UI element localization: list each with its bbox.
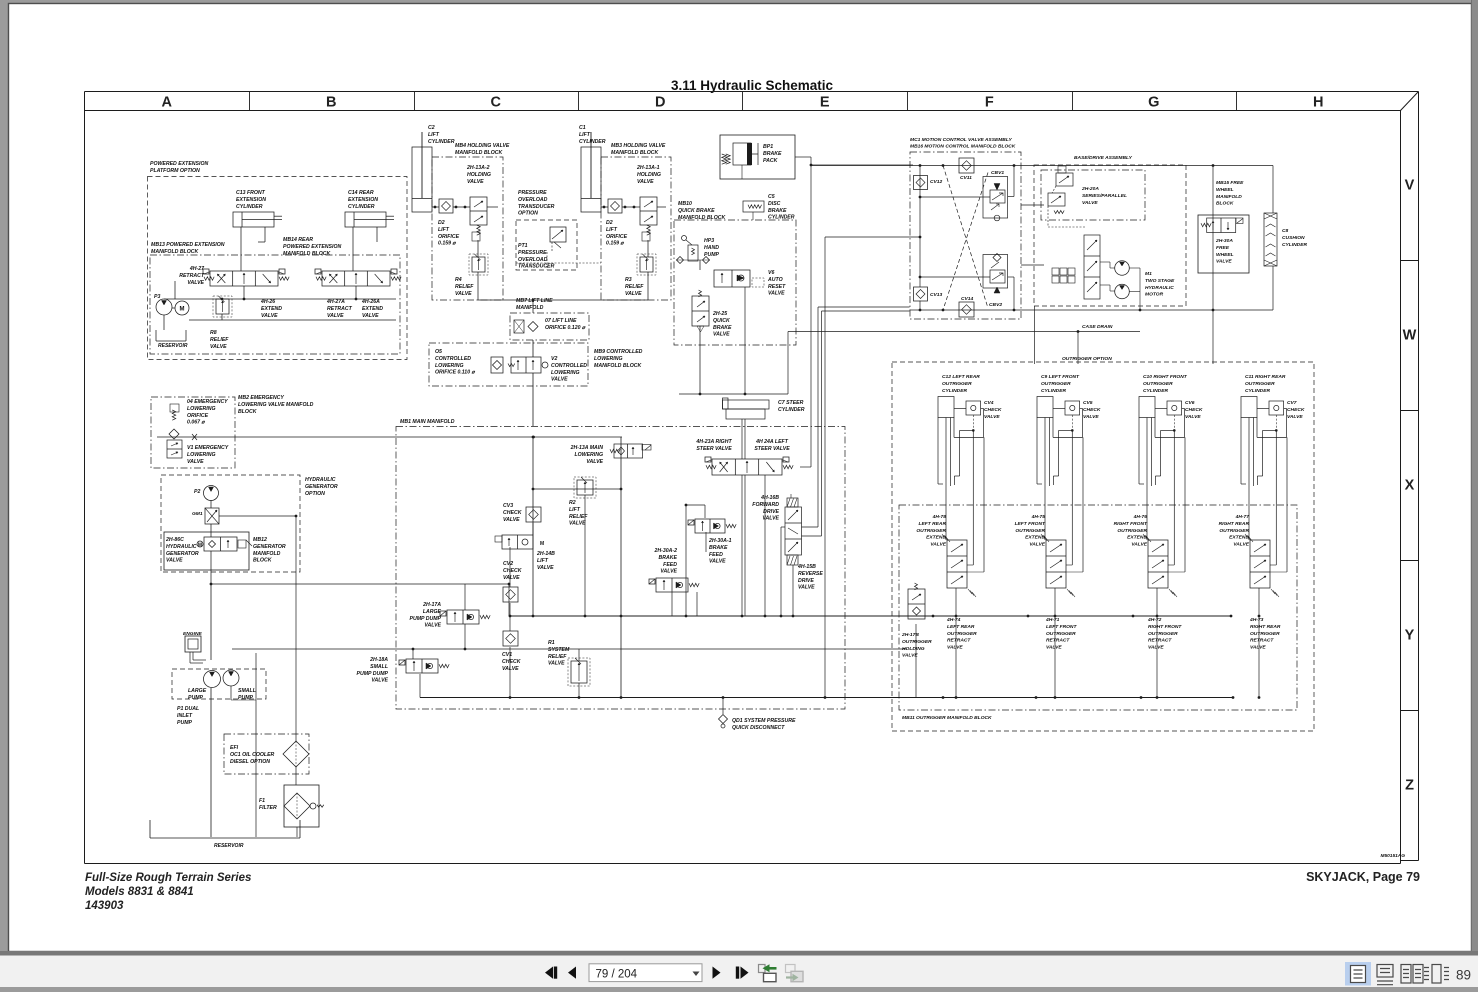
svg-text:MANIFOLD BLOCK: MANIFOLD BLOCK bbox=[455, 150, 504, 156]
svg-text:RELIEF: RELIEF bbox=[210, 337, 229, 343]
svg-text:MANIFOLD BLOCK: MANIFOLD BLOCK bbox=[594, 363, 643, 369]
svg-text:CYLINDER: CYLINDER bbox=[579, 139, 606, 145]
svg-text:EXTEND: EXTEND bbox=[1025, 535, 1045, 541]
svg-text:VALVE: VALVE bbox=[1250, 645, 1266, 651]
svg-text:OVERLOAD: OVERLOAD bbox=[518, 197, 548, 203]
svg-text:4H-72: 4H-72 bbox=[1147, 617, 1162, 623]
svg-text:4H-71: 4H-71 bbox=[1045, 617, 1060, 623]
svg-text:SKYJACK, Page 79: SKYJACK, Page 79 bbox=[1306, 870, 1420, 884]
svg-text:LEFT FRONT: LEFT FRONT bbox=[1046, 624, 1077, 630]
svg-text:FREE: FREE bbox=[1216, 245, 1230, 251]
svg-text:CBV2: CBV2 bbox=[989, 302, 1002, 308]
svg-text:V1 EMERGENCY: V1 EMERGENCY bbox=[187, 445, 229, 451]
svg-text:MB13 POWERED EXTENSION: MB13 POWERED EXTENSION bbox=[151, 242, 225, 248]
svg-text:VALVE: VALVE bbox=[586, 459, 603, 465]
svg-text:O5: O5 bbox=[435, 349, 442, 355]
svg-text:CHECK: CHECK bbox=[1083, 407, 1101, 413]
svg-text:LIFT: LIFT bbox=[606, 227, 618, 233]
svg-text:MANIFOLD BLOCK: MANIFOLD BLOCK bbox=[611, 150, 660, 156]
svg-text:OUTRIGGER: OUTRIGGER bbox=[942, 381, 972, 387]
svg-text:H: H bbox=[1313, 95, 1323, 111]
svg-text:VALVE: VALVE bbox=[713, 332, 730, 338]
svg-text:MB9 CONTROLLED: MB9 CONTROLLED bbox=[594, 349, 643, 355]
svg-text:LOWERING: LOWERING bbox=[594, 356, 623, 362]
svg-text:BLOCK: BLOCK bbox=[253, 558, 273, 564]
svg-text:2H-17B: 2H-17B bbox=[901, 632, 919, 638]
svg-text:143903: 143903 bbox=[85, 900, 124, 912]
svg-text:EXTEND: EXTEND bbox=[1127, 535, 1147, 541]
svg-text:RELIEF: RELIEF bbox=[455, 284, 474, 290]
svg-text:3.11 Hydraulic Schematic: 3.11 Hydraulic Schematic bbox=[671, 78, 834, 93]
svg-text:DRIVE: DRIVE bbox=[798, 578, 814, 584]
svg-text:GENERATOR: GENERATOR bbox=[253, 544, 286, 550]
svg-text:LOWERING: LOWERING bbox=[187, 452, 216, 458]
svg-text:LOWERING VALVE MANIFOLD: LOWERING VALVE MANIFOLD bbox=[238, 402, 314, 408]
svg-text:MC1 MOTION CONTROL VALVE ASSEM: MC1 MOTION CONTROL VALVE ASSEMBLY bbox=[910, 137, 1012, 143]
svg-text:Z: Z bbox=[1405, 778, 1414, 794]
svg-text:VALVE: VALVE bbox=[424, 623, 441, 629]
svg-text:VALVE: VALVE bbox=[768, 291, 785, 297]
svg-text:MB4 HOLDING VALVE: MB4 HOLDING VALVE bbox=[455, 143, 510, 149]
svg-text:HYDRAULIC: HYDRAULIC bbox=[305, 477, 336, 483]
svg-text:MANIFOLD BLOCK: MANIFOLD BLOCK bbox=[151, 249, 200, 255]
svg-text:2H-13A-2: 2H-13A-2 bbox=[466, 165, 490, 171]
svg-text:4H-15B: 4H-15B bbox=[797, 564, 816, 570]
svg-text:VALVE: VALVE bbox=[1046, 645, 1062, 651]
svg-text:VALVE: VALVE bbox=[1148, 645, 1164, 651]
svg-text:VALVE: VALVE bbox=[327, 313, 344, 319]
svg-text:HOLDING: HOLDING bbox=[637, 172, 661, 178]
svg-text:VALVE: VALVE bbox=[362, 313, 379, 319]
svg-text:HYDRAULIC: HYDRAULIC bbox=[166, 544, 197, 550]
svg-text:VALVE: VALVE bbox=[503, 517, 520, 523]
svg-text:DISC: DISC bbox=[768, 201, 781, 207]
svg-text:VALVE: VALVE bbox=[166, 558, 183, 564]
svg-text:VALVE: VALVE bbox=[467, 179, 484, 185]
svg-text:OUTRIGGER: OUTRIGGER bbox=[902, 639, 932, 645]
svg-text:SERIES/PARALLEL: SERIES/PARALLEL bbox=[1082, 193, 1127, 199]
svg-text:VALVE: VALVE bbox=[984, 414, 1000, 420]
svg-text:DIESEL OPTION: DIESEL OPTION bbox=[230, 759, 270, 765]
svg-text:VALVE: VALVE bbox=[455, 291, 472, 297]
svg-text:BLOCK: BLOCK bbox=[238, 409, 258, 415]
svg-text:A: A bbox=[162, 95, 173, 111]
svg-text:VALVE: VALVE bbox=[187, 280, 204, 286]
svg-text:P2: P2 bbox=[194, 489, 200, 495]
svg-text:EXTEND: EXTEND bbox=[362, 306, 383, 312]
svg-text:4H-74: 4H-74 bbox=[946, 617, 961, 623]
svg-text:D2: D2 bbox=[606, 220, 613, 226]
svg-text:HYDRAULIC: HYDRAULIC bbox=[1145, 285, 1174, 291]
svg-text:2H-20A: 2H-20A bbox=[1081, 186, 1099, 192]
svg-text:LIFT: LIFT bbox=[428, 132, 440, 138]
svg-text:CHECK: CHECK bbox=[502, 659, 522, 665]
svg-text:EXTEND: EXTEND bbox=[926, 535, 946, 541]
svg-text:STEER VALVE: STEER VALVE bbox=[696, 446, 732, 452]
svg-text:OUTRIGGER: OUTRIGGER bbox=[947, 631, 977, 637]
svg-text:PUMP: PUMP bbox=[177, 720, 193, 726]
svg-text:BP1: BP1 bbox=[763, 144, 773, 150]
svg-text:PLATFORM OPTION: PLATFORM OPTION bbox=[150, 168, 200, 174]
svg-text:LIFT: LIFT bbox=[537, 558, 549, 564]
svg-text:ORIFICE 0.110 ⌀: ORIFICE 0.110 ⌀ bbox=[435, 370, 476, 376]
svg-text:4H 24A LEFT: 4H 24A LEFT bbox=[755, 439, 789, 445]
svg-text:ORIFICE: ORIFICE bbox=[606, 234, 628, 240]
svg-text:VALVE: VALVE bbox=[187, 459, 204, 465]
svg-text:CV1: CV1 bbox=[502, 652, 512, 658]
svg-text:MB1 MAIN MANIFOLD: MB1 MAIN MANIFOLD bbox=[400, 419, 455, 425]
svg-text:VALVE: VALVE bbox=[798, 585, 815, 591]
svg-text:M: M bbox=[540, 541, 544, 547]
svg-text:CV13: CV13 bbox=[930, 292, 943, 298]
svg-text:C2: C2 bbox=[428, 125, 435, 131]
svg-text:E: E bbox=[820, 95, 830, 111]
svg-text:PUMP: PUMP bbox=[188, 695, 204, 701]
svg-text:R2: R2 bbox=[569, 500, 576, 506]
svg-text:BRAKE: BRAKE bbox=[659, 555, 678, 561]
svg-text:4H-75: 4H-75 bbox=[1031, 514, 1046, 520]
svg-text:2H-30A-2: 2H-30A-2 bbox=[654, 548, 678, 554]
svg-text:VALVE: VALVE bbox=[548, 661, 565, 667]
svg-text:CUSHION: CUSHION bbox=[1282, 235, 1305, 241]
svg-text:QUICK DISCONNECT: QUICK DISCONNECT bbox=[732, 725, 785, 731]
svg-text:OUTRIGGER: OUTRIGGER bbox=[1041, 381, 1071, 387]
svg-text:R4: R4 bbox=[455, 277, 462, 283]
svg-text:RELIEF: RELIEF bbox=[548, 654, 567, 660]
svg-text:LIFT: LIFT bbox=[569, 507, 581, 513]
svg-text:ORIFICE: ORIFICE bbox=[438, 234, 460, 240]
svg-text:INLET: INLET bbox=[177, 713, 193, 719]
svg-text:VALVE: VALVE bbox=[1131, 542, 1147, 548]
svg-text:RIGHT REAR: RIGHT REAR bbox=[1219, 521, 1250, 527]
svg-text:CYLINDER: CYLINDER bbox=[428, 139, 455, 145]
svg-text:OUTRIGGER: OUTRIGGER bbox=[1148, 631, 1178, 637]
svg-text:V2: V2 bbox=[551, 356, 557, 362]
svg-text:EXTENSION: EXTENSION bbox=[348, 197, 378, 203]
svg-text:CHECK: CHECK bbox=[1287, 407, 1305, 413]
svg-text:C: C bbox=[491, 95, 502, 111]
svg-text:VALVE: VALVE bbox=[1185, 414, 1201, 420]
svg-text:VALVE: VALVE bbox=[930, 542, 946, 548]
svg-text:2H-13A-1: 2H-13A-1 bbox=[636, 165, 660, 171]
svg-text:BRAKE: BRAKE bbox=[713, 325, 732, 331]
svg-text:LEFT REAR: LEFT REAR bbox=[947, 624, 975, 630]
svg-text:OUTRIGGER: OUTRIGGER bbox=[1250, 631, 1280, 637]
svg-text:LOWERING: LOWERING bbox=[435, 363, 464, 369]
svg-text:DRIVE: DRIVE bbox=[763, 509, 779, 515]
svg-text:4H-23A RIGHT: 4H-23A RIGHT bbox=[695, 439, 732, 445]
svg-text:G: G bbox=[1148, 95, 1159, 111]
svg-text:C12 LEFT REAR: C12 LEFT REAR bbox=[942, 374, 980, 380]
svg-text:2H-25: 2H-25 bbox=[712, 311, 727, 317]
svg-text:VALVE: VALVE bbox=[371, 678, 388, 684]
svg-text:LOWERING: LOWERING bbox=[187, 406, 216, 412]
svg-text:V: V bbox=[1405, 178, 1415, 194]
svg-text:TRANSDUCER: TRANSDUCER bbox=[518, 264, 555, 270]
svg-text:SMALL: SMALL bbox=[238, 688, 256, 694]
svg-text:OC1 OIL COOLER: OC1 OIL COOLER bbox=[230, 752, 275, 758]
svg-text:CYLINDER: CYLINDER bbox=[778, 407, 805, 413]
svg-text:GENERATOR: GENERATOR bbox=[305, 484, 338, 490]
svg-text:TWO STAGE: TWO STAGE bbox=[1145, 278, 1175, 284]
svg-text:C5: C5 bbox=[768, 194, 775, 200]
svg-text:CV4: CV4 bbox=[984, 400, 994, 406]
svg-text:4H-73: 4H-73 bbox=[1249, 617, 1264, 623]
svg-text:RETRACT: RETRACT bbox=[947, 638, 971, 644]
svg-text:MANIFOLD: MANIFOLD bbox=[253, 551, 281, 557]
svg-text:SMALL: SMALL bbox=[370, 664, 388, 670]
svg-text:VALVE: VALVE bbox=[1233, 542, 1249, 548]
svg-text:F1: F1 bbox=[259, 798, 265, 804]
svg-text:CYLINDER: CYLINDER bbox=[1282, 242, 1307, 248]
svg-text:B: B bbox=[326, 95, 336, 111]
svg-text:OUTRIGGER: OUTRIGGER bbox=[1015, 528, 1045, 534]
svg-text:LIFT: LIFT bbox=[579, 132, 591, 138]
svg-text:VALVE: VALVE bbox=[502, 666, 519, 672]
svg-text:2H-14B: 2H-14B bbox=[536, 551, 555, 557]
svg-text:C11 RIGHT REAR: C11 RIGHT REAR bbox=[1245, 374, 1286, 380]
svg-text:R3: R3 bbox=[625, 277, 632, 283]
svg-text:M: M bbox=[180, 307, 185, 313]
svg-text:P1 DUAL: P1 DUAL bbox=[177, 706, 199, 712]
svg-text:FEED: FEED bbox=[663, 562, 677, 568]
svg-text:GENERATOR: GENERATOR bbox=[166, 551, 199, 557]
svg-text:VALVE: VALVE bbox=[551, 377, 568, 383]
svg-text:OPTION: OPTION bbox=[518, 211, 538, 217]
svg-text:CV5: CV5 bbox=[1083, 400, 1093, 406]
svg-text:LARGE: LARGE bbox=[188, 688, 207, 694]
svg-text:4H-26: 4H-26 bbox=[260, 299, 275, 305]
svg-text:Full-Size Rough Terrain Series: Full-Size Rough Terrain Series bbox=[85, 872, 251, 884]
svg-text:2H-18A: 2H-18A bbox=[369, 657, 388, 663]
svg-text:REVERSE: REVERSE bbox=[798, 571, 823, 577]
svg-text:MOTOR: MOTOR bbox=[1145, 292, 1164, 298]
svg-text:RETRACT: RETRACT bbox=[1046, 638, 1070, 644]
svg-text:MB11 OUTRIGGER MANIFOLD BLOCK: MB11 OUTRIGGER MANIFOLD BLOCK bbox=[902, 715, 992, 721]
svg-text:VALVE: VALVE bbox=[709, 559, 726, 565]
svg-text:PT1: PT1 bbox=[518, 243, 528, 249]
svg-text:RIGHT REAR: RIGHT REAR bbox=[1250, 624, 1281, 630]
svg-text:CYLINDER: CYLINDER bbox=[1041, 388, 1066, 394]
svg-text:VALVE: VALVE bbox=[569, 521, 586, 527]
svg-text:CASE DRAIN: CASE DRAIN bbox=[1082, 324, 1113, 330]
svg-text:RELIEF: RELIEF bbox=[569, 514, 588, 520]
svg-text:07 LIFT LINE: 07 LIFT LINE bbox=[545, 318, 577, 324]
svg-text:OUTRIGGER: OUTRIGGER bbox=[1245, 381, 1275, 387]
svg-text:CHECK: CHECK bbox=[1185, 407, 1203, 413]
svg-text:LEFT REAR: LEFT REAR bbox=[919, 521, 947, 527]
svg-text:89: 89 bbox=[1456, 968, 1471, 983]
svg-text:PUMP DUMP: PUMP DUMP bbox=[409, 616, 441, 622]
svg-text:BRAKE: BRAKE bbox=[709, 545, 728, 551]
svg-text:VALVE: VALVE bbox=[503, 575, 520, 581]
svg-text:C8: C8 bbox=[1282, 228, 1289, 234]
svg-text:0.067 ⌀: 0.067 ⌀ bbox=[187, 420, 205, 426]
svg-text:BASE/DRIVE ASSEMBLY: BASE/DRIVE ASSEMBLY bbox=[1074, 155, 1133, 161]
svg-text:MB15 FREE: MB15 FREE bbox=[1216, 180, 1244, 186]
svg-text:D2: D2 bbox=[438, 220, 445, 226]
svg-text:Y: Y bbox=[1405, 628, 1415, 644]
svg-text:MB10: MB10 bbox=[678, 201, 692, 207]
svg-text:HAND: HAND bbox=[704, 245, 719, 251]
svg-text:OUTRIGGER OPTION: OUTRIGGER OPTION bbox=[1062, 356, 1112, 362]
svg-text:P3: P3 bbox=[154, 294, 160, 300]
svg-text:79 / 204: 79 / 204 bbox=[596, 969, 638, 981]
svg-text:0.159 ⌀: 0.159 ⌀ bbox=[606, 241, 624, 247]
svg-text:F: F bbox=[985, 95, 994, 111]
svg-text:CV7: CV7 bbox=[1287, 400, 1297, 406]
svg-text:LOWERING: LOWERING bbox=[551, 370, 580, 376]
svg-text:MANIFOLD: MANIFOLD bbox=[1216, 194, 1242, 200]
svg-text:M1: M1 bbox=[1145, 271, 1152, 277]
svg-text:EXTEND: EXTEND bbox=[261, 306, 282, 312]
svg-text:VALVE: VALVE bbox=[261, 313, 278, 319]
svg-text:RIGHT FRONT: RIGHT FRONT bbox=[1114, 521, 1148, 527]
svg-text:ORIFICE: ORIFICE bbox=[187, 413, 209, 419]
svg-text:BLOCK: BLOCK bbox=[1216, 201, 1234, 207]
svg-text:OUTRIGGER: OUTRIGGER bbox=[916, 528, 946, 534]
svg-text:ORIFICE 0.120 ⌀: ORIFICE 0.120 ⌀ bbox=[545, 325, 586, 331]
svg-text:MB7 LIFT LINE: MB7 LIFT LINE bbox=[516, 298, 553, 304]
svg-text:Models 8831 & 8841: Models 8831 & 8841 bbox=[85, 886, 194, 898]
svg-text:C10 RIGHT FRONT: C10 RIGHT FRONT bbox=[1143, 374, 1188, 380]
svg-text:X: X bbox=[1405, 478, 1415, 494]
svg-text:4H-78: 4H-78 bbox=[932, 514, 947, 520]
svg-text:POWERED EXTENSION: POWERED EXTENSION bbox=[283, 244, 341, 250]
svg-text:CYLINDER: CYLINDER bbox=[1245, 388, 1270, 394]
svg-text:RETRACT: RETRACT bbox=[179, 273, 205, 279]
svg-text:CYLINDER: CYLINDER bbox=[1143, 388, 1168, 394]
svg-text:OUTRIGGER: OUTRIGGER bbox=[1143, 381, 1173, 387]
svg-text:MB12: MB12 bbox=[253, 537, 267, 543]
svg-text:4H-16B: 4H-16B bbox=[760, 495, 779, 501]
svg-text:OUTRIGGER: OUTRIGGER bbox=[1117, 528, 1147, 534]
svg-text:CV14: CV14 bbox=[961, 296, 974, 302]
svg-text:MB3 HOLDING VALVE: MB3 HOLDING VALVE bbox=[611, 143, 666, 149]
svg-text:QUICK: QUICK bbox=[713, 318, 731, 324]
svg-text:CV2: CV2 bbox=[503, 561, 513, 567]
svg-text:MANIFOLD: MANIFOLD bbox=[516, 305, 544, 311]
svg-text:FEED: FEED bbox=[709, 552, 723, 558]
svg-text:2H-13A MAIN: 2H-13A MAIN bbox=[570, 445, 604, 451]
svg-text:OUTRIGGER: OUTRIGGER bbox=[1219, 528, 1249, 534]
svg-text:CHECK: CHECK bbox=[984, 407, 1002, 413]
svg-text:OUTRIGGER: OUTRIGGER bbox=[1046, 631, 1076, 637]
svg-text:MB16 MOTION CONTROL MANIFOLD B: MB16 MOTION CONTROL MANIFOLD BLOCK bbox=[910, 143, 1016, 149]
svg-text:4H-77: 4H-77 bbox=[1235, 514, 1250, 520]
svg-text:LOWERING: LOWERING bbox=[574, 452, 603, 458]
svg-text:4H-26A: 4H-26A bbox=[361, 299, 380, 305]
svg-text:RETRACT: RETRACT bbox=[327, 306, 353, 312]
svg-text:C14 REAR: C14 REAR bbox=[348, 190, 374, 196]
svg-text:OPTION: OPTION bbox=[305, 491, 325, 497]
svg-text:C13 FRONT: C13 FRONT bbox=[236, 190, 266, 196]
svg-text:QUICK BRAKE: QUICK BRAKE bbox=[678, 208, 715, 214]
svg-text:V6: V6 bbox=[768, 270, 774, 276]
svg-text:HP3: HP3 bbox=[704, 238, 714, 244]
svg-text:VALVE: VALVE bbox=[1216, 259, 1232, 265]
svg-text:FORWARD: FORWARD bbox=[752, 502, 779, 508]
svg-text:VALVE: VALVE bbox=[537, 565, 554, 571]
svg-text:TRANSDUCER: TRANSDUCER bbox=[518, 204, 555, 210]
svg-text:FILTER: FILTER bbox=[259, 805, 277, 811]
svg-text:BRAKE: BRAKE bbox=[763, 151, 782, 157]
svg-text:CYLINDER: CYLINDER bbox=[236, 204, 263, 210]
svg-text:MANIFOLD BLOCK: MANIFOLD BLOCK bbox=[283, 251, 332, 257]
svg-text:CV6: CV6 bbox=[1185, 400, 1195, 406]
svg-text:BRAKE: BRAKE bbox=[768, 208, 787, 214]
svg-text:M50151AG: M50151AG bbox=[1380, 853, 1405, 859]
svg-text:EFI: EFI bbox=[230, 745, 239, 751]
svg-text:RELIEF: RELIEF bbox=[625, 284, 644, 290]
svg-text:R8: R8 bbox=[210, 330, 217, 336]
svg-text:SYSTEM: SYSTEM bbox=[548, 647, 570, 653]
svg-text:PRESSURE: PRESSURE bbox=[518, 250, 547, 256]
svg-text:POWERED EXTENSION: POWERED EXTENSION bbox=[150, 161, 208, 167]
svg-text:RETRACT: RETRACT bbox=[1250, 638, 1274, 644]
svg-text:4H-76: 4H-76 bbox=[1133, 514, 1148, 520]
svg-text:2H-86C: 2H-86C bbox=[165, 537, 184, 543]
svg-text:CYLINDER: CYLINDER bbox=[942, 388, 967, 394]
svg-text:EXTENSION: EXTENSION bbox=[236, 197, 266, 203]
svg-text:RIGHT FRONT: RIGHT FRONT bbox=[1148, 624, 1182, 630]
svg-text:VALVE: VALVE bbox=[1082, 200, 1098, 206]
svg-text:CONTROLLED: CONTROLLED bbox=[435, 356, 471, 362]
svg-text:C7 STEER: C7 STEER bbox=[778, 400, 804, 406]
svg-text:CBV1: CBV1 bbox=[991, 170, 1004, 176]
svg-text:VALVE: VALVE bbox=[1029, 542, 1045, 548]
svg-text:R1: R1 bbox=[548, 640, 555, 646]
svg-text:LEFT FRONT: LEFT FRONT bbox=[1015, 521, 1046, 527]
svg-text:MB14 REAR: MB14 REAR bbox=[283, 237, 313, 243]
svg-text:VALVE: VALVE bbox=[947, 645, 963, 651]
svg-text:VALVE: VALVE bbox=[625, 291, 642, 297]
svg-text:C9 LEFT FRONT: C9 LEFT FRONT bbox=[1041, 374, 1080, 380]
svg-text:4H-27A: 4H-27A bbox=[326, 299, 345, 305]
svg-text:RESERVOIR: RESERVOIR bbox=[214, 843, 244, 849]
svg-text:VALVE: VALVE bbox=[637, 179, 654, 185]
svg-text:PRESSURE: PRESSURE bbox=[518, 190, 547, 196]
svg-text:CV3: CV3 bbox=[503, 503, 513, 509]
svg-text:HOLDING: HOLDING bbox=[902, 646, 925, 652]
svg-text:CYLINDER: CYLINDER bbox=[348, 204, 375, 210]
svg-text:W: W bbox=[1403, 328, 1417, 344]
svg-text:VALVE: VALVE bbox=[210, 344, 227, 350]
svg-text:PACK: PACK bbox=[763, 158, 779, 164]
svg-text:D: D bbox=[655, 95, 665, 111]
svg-text:VALVE: VALVE bbox=[660, 569, 677, 575]
svg-text:2H-30A-1: 2H-30A-1 bbox=[708, 538, 732, 544]
svg-text:CV12: CV12 bbox=[930, 179, 943, 185]
svg-text:AUTO: AUTO bbox=[767, 277, 783, 283]
svg-text:0.159 ⌀: 0.159 ⌀ bbox=[438, 241, 456, 247]
svg-text:QD1 SYSTEM PRESSURE: QD1 SYSTEM PRESSURE bbox=[732, 718, 796, 724]
svg-text:C1: C1 bbox=[579, 125, 586, 131]
svg-text:RETRACT: RETRACT bbox=[1148, 638, 1172, 644]
svg-text:2H-17A: 2H-17A bbox=[422, 602, 441, 608]
svg-text:RESET: RESET bbox=[768, 284, 786, 290]
svg-text:M: M bbox=[198, 543, 202, 549]
svg-text:MB2 EMERGENCY: MB2 EMERGENCY bbox=[238, 395, 284, 401]
svg-text:PUMP DUMP: PUMP DUMP bbox=[356, 671, 388, 677]
svg-text:04 EMERGENCY: 04 EMERGENCY bbox=[187, 399, 228, 405]
svg-text:2H-30A: 2H-30A bbox=[1215, 238, 1233, 244]
svg-text:CONTROLLED: CONTROLLED bbox=[551, 363, 587, 369]
svg-text:CV11: CV11 bbox=[960, 175, 972, 181]
svg-text:GM1: GM1 bbox=[192, 511, 203, 517]
svg-text:LARGE: LARGE bbox=[423, 609, 442, 615]
svg-text:WHEEL: WHEEL bbox=[1216, 252, 1234, 258]
